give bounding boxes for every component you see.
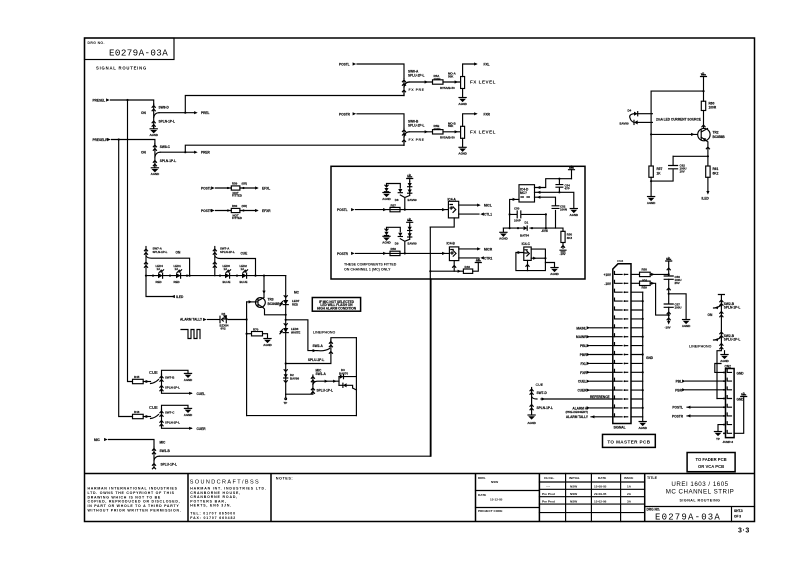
resistor R58 (box ch2) <box>390 247 400 255</box>
svg-text:R61: R61 <box>713 167 719 171</box>
svg-text:FAX: 01707 660482: FAX: 01707 660482 <box>190 516 236 520</box>
wire IC4-D pin3 to C52 <box>535 196 556 229</box>
svg-text:CTL1: CTL1 <box>484 213 492 217</box>
wire ILED return <box>146 276 175 299</box>
svg-text:R59: R59 <box>642 286 648 290</box>
wire IC4-D left pin down <box>510 198 519 228</box>
svg-text:RED: RED <box>292 303 298 307</box>
wire to R70 <box>247 333 252 335</box>
node POSTL (CN2) <box>672 406 723 410</box>
diode D2 BAV99 <box>284 370 300 383</box>
svg-text:PBR: PBR <box>580 353 587 357</box>
potentiometer RV5B FX LEVEL <box>440 121 496 139</box>
capacitor C62 100U <box>651 156 686 181</box>
resistor R57 1K (LED source) <box>649 134 663 196</box>
svg-text:100R: 100R <box>709 106 717 110</box>
svg-text:FXL: FXL <box>484 63 490 67</box>
capacitor C50 100P <box>514 207 521 223</box>
svg-text:Pre Prod: Pre Prod <box>542 500 555 504</box>
svg-text:MC CHANNEL STRIP: MC CHANNEL STRIP <box>666 489 735 496</box>
svg-text:EFXL: EFXL <box>262 186 270 190</box>
svg-text:CUE: CUE <box>149 405 158 410</box>
node POSTL input (FX A) <box>339 62 356 66</box>
svg-text:6K2: 6K2 <box>713 172 719 176</box>
svg-text:IC4-A: IC4-A <box>448 197 457 201</box>
svg-text:SPLN-1P-L: SPLN-1P-L <box>159 120 176 124</box>
wire CN3 GND bus <box>631 292 644 421</box>
node EFXR <box>262 209 271 213</box>
ground SW7-B <box>184 373 193 381</box>
svg-text:CUE: CUE <box>536 383 544 387</box>
svg-text:MICR: MICR <box>484 247 493 251</box>
wire CN2 pin7 to ground <box>718 425 723 431</box>
svg-text:ISSUE: ISSUE <box>624 476 633 480</box>
ground (IC4-C out) <box>550 268 559 276</box>
wire R70 to ground <box>263 334 268 338</box>
svg-text:CUE: CUE <box>149 370 158 375</box>
ground below SW8-D <box>149 129 158 137</box>
wire SW6-B to R5B <box>409 130 432 133</box>
power +10V (cap rail) <box>666 256 672 276</box>
wire IC4-D mid pin to ground <box>535 191 574 208</box>
transistor TR2 BC858B <box>698 128 726 141</box>
svg-text:FX PRE: FX PRE <box>409 138 425 142</box>
svg-text:NSW: NSW <box>491 480 498 484</box>
connector CN3 pins <box>615 271 628 417</box>
svg-text:WHITE: WHITE <box>291 331 300 335</box>
ground (CN2 pin7) <box>714 432 721 442</box>
ground (SW7-D) <box>527 415 536 425</box>
svg-text:FITTED: FITTED <box>232 216 242 220</box>
svg-text:DRAWING WHICH IS NOT TO BE: DRAWING WHICH IS NOT TO BE <box>88 495 162 499</box>
svg-text:UREI 1603 / 1605: UREI 1603 / 1605 <box>671 481 728 488</box>
svg-text:ALARM TALLY: ALARM TALLY <box>566 415 589 419</box>
node ALARM TALLY input <box>180 318 207 322</box>
wire RV5A bottom to ground <box>462 89 464 98</box>
wire LED row ON <box>146 275 215 277</box>
svg-text:1K: 1K <box>657 172 662 176</box>
node MAINL <box>576 326 614 330</box>
svg-text:DRG NO.: DRG NO. <box>647 508 661 512</box>
wire IC4-A out MICL <box>459 204 492 208</box>
svg-text:D8: D8 <box>395 198 399 202</box>
ground (SW2-B) <box>720 351 729 363</box>
svg-text:PRESELR: PRESELR <box>93 138 109 142</box>
svg-text:50K: 50K <box>448 74 454 78</box>
svg-text:JUMP-6: JUMP-6 <box>723 440 734 444</box>
svg-text:----: ---- <box>546 485 550 489</box>
node POSTL (box) <box>337 208 355 212</box>
svg-text:SW1-A: SW1-A <box>316 372 327 376</box>
svg-text:THESE COMPONENTS FITTED: THESE COMPONENTS FITTED <box>344 263 397 267</box>
title block grid <box>85 474 755 522</box>
svg-text:BLUE: BLUE <box>223 280 231 284</box>
svg-text:SW7-B: SW7-B <box>165 376 174 380</box>
svg-text:DRG NO.: DRG NO. <box>88 41 105 45</box>
svg-text:HIGH ALARM CONDITION: HIGH ALARM CONDITION <box>317 306 357 310</box>
ground (cap mid) <box>682 320 691 328</box>
svg-text:100R: 100R <box>434 127 442 131</box>
drawn/date cells <box>478 476 503 513</box>
wire PRER junction up to FX PRE B <box>185 145 404 152</box>
svg-text:100U: 100U <box>675 306 682 310</box>
wire TR3 emitter to MC LED chain <box>263 308 286 315</box>
ground (IC4-D right) <box>570 209 579 217</box>
svg-text:EFXR: EFXR <box>262 209 271 213</box>
resistor R70 <box>252 328 263 336</box>
svg-text:FXR: FXR <box>484 112 491 116</box>
svg-text:FX LEVEL: FX LEVEL <box>470 129 496 134</box>
wire POSTL to SW6-A <box>357 64 404 79</box>
svg-text:29-09-05: 29-09-05 <box>594 492 607 496</box>
wire D5 to TR3 base vertical <box>228 318 248 320</box>
switch SW7-A CUE (LED bypass) <box>213 247 255 276</box>
wire IC4-C bottom <box>526 260 529 270</box>
node PBL (CN2) <box>676 380 723 384</box>
wire POSTR to SW6-B <box>357 114 404 129</box>
node PBL (CN3) <box>580 344 614 348</box>
svg-text:BAT54: BAT54 <box>520 234 529 238</box>
node FXL <box>484 63 490 67</box>
title cell UREI 1603 / 1605 MC CHANNEL STRIP <box>647 476 734 503</box>
svg-text:FX PRE: FX PRE <box>409 88 425 92</box>
svg-text:0R1: 0R1 <box>642 278 648 282</box>
svg-text:2mA LED CURRENT SOURCE: 2mA LED CURRENT SOURCE <box>656 117 701 121</box>
switch SW7-B CUE <box>149 370 193 395</box>
capacitor C57 100U 25V <box>664 294 681 321</box>
svg-text:R58: R58 <box>642 267 648 271</box>
wire POSTR to IC4-B <box>356 252 450 255</box>
power +B ch1 cluster <box>407 173 413 181</box>
svg-text:SW7-C: SW7-C <box>165 411 175 415</box>
junction CUE LED row <box>219 275 265 277</box>
node FXR <box>484 112 491 116</box>
node PRESELR input <box>93 138 111 142</box>
svg-text:SPLN-1P-L: SPLN-1P-L <box>220 250 235 254</box>
svg-text:AGND: AGND <box>527 421 536 425</box>
svg-text:RED: RED <box>174 280 180 284</box>
svg-text:100N: 100N <box>560 208 567 212</box>
label LINE/PHONO <box>313 331 336 335</box>
wire bus left to ground <box>502 228 504 232</box>
node PBR (CN2) <box>675 388 723 392</box>
node PRESEL input <box>93 98 110 102</box>
svg-text:15-12-05: 15-12-05 <box>490 498 503 502</box>
switch SW2-A LINE/PHONO <box>286 338 357 364</box>
svg-text:SPLU-2P-L: SPLU-2P-L <box>408 74 425 78</box>
switch SW7-D CUE (reference) <box>530 383 553 415</box>
wire MC LED chain vertical <box>285 276 287 395</box>
switch SW7-C CUE <box>149 405 193 430</box>
svg-text:SW2-A: SW2-A <box>313 344 324 348</box>
power -10V (R50) <box>560 243 567 256</box>
svg-text:SPLN-1P-L: SPLN-1P-L <box>160 159 177 163</box>
resistor R5B 100R <box>433 124 444 134</box>
svg-text:CH No.: CH No. <box>544 476 554 480</box>
svg-text:PROJECT CODE: PROJECT CODE <box>478 509 502 513</box>
svg-text:HERTS, EN6 3JN.: HERTS, EN6 3JN. <box>190 504 232 508</box>
svg-text:TP: TP <box>716 437 720 441</box>
switch SW1-B MIC <box>152 441 177 469</box>
svg-text:PBL: PBL <box>580 344 586 348</box>
resistor R61 6K2 <box>706 156 719 177</box>
node ALARM HI <box>566 406 615 414</box>
svg-text:COPIED, REPRODUCED OR DISCLOSE: COPIED, REPRODUCED OR DISCLOSED, <box>88 500 181 504</box>
svg-text:PBL: PBL <box>676 380 682 384</box>
svg-text:TITLE: TITLE <box>647 476 658 480</box>
svg-text:CUEL: CUEL <box>197 392 206 396</box>
svg-text:-10V: -10V <box>604 282 612 286</box>
svg-text:RV5A/B-50: RV5A/B-50 <box>440 86 455 90</box>
switch SW7-A ON (LED bypass) <box>144 247 189 276</box>
company address block SOUNDCRAFT/BSS <box>190 479 267 520</box>
wire CUE reference to CN3 <box>541 397 615 400</box>
power +B ch2 cluster <box>407 217 413 225</box>
svg-text:BAV99: BAV99 <box>290 377 299 381</box>
node MAINR <box>576 335 614 339</box>
node ALARM TALLY (CN3) <box>566 415 615 419</box>
wire CN2 pin1 gnd <box>715 364 744 376</box>
wire C50 right vertical <box>545 214 547 229</box>
svg-text:D4: D4 <box>628 109 632 113</box>
resistor R57 (box ch1) <box>390 203 400 211</box>
switch SW8-D ON <box>141 104 175 128</box>
svg-text:R60: R60 <box>232 204 238 208</box>
svg-text:RV5A/B-50: RV5A/B-50 <box>440 136 455 140</box>
svg-text:SPLN-1P-L: SPLN-1P-L <box>153 250 168 254</box>
svg-text:CUEL: CUEL <box>578 380 587 384</box>
note box: IF MIC NOT SELECTED <box>312 298 360 312</box>
node CUEL (CN3) <box>578 380 615 384</box>
svg-text:GND: GND <box>737 371 745 375</box>
ground ch1 cluster <box>382 193 391 201</box>
node POSTR input (FX B) <box>339 112 356 116</box>
svg-text:R59: R59 <box>232 182 238 186</box>
svg-text:15-08-05: 15-08-05 <box>594 485 607 489</box>
svg-text:ILED: ILED <box>702 197 710 201</box>
svg-text:CUER: CUER <box>197 427 207 431</box>
led LED6 1A BLUE <box>223 264 231 284</box>
potentiometer RV5A/B-50 FX LEVEL <box>440 72 496 90</box>
svg-text:25V: 25V <box>675 281 680 285</box>
svg-text:POSTR: POSTR <box>339 112 351 116</box>
wire POSTL to IC4-A <box>356 208 449 211</box>
svg-text:TO MASTER PCB: TO MASTER PCB <box>607 440 650 445</box>
svg-text:SPLN-1P-L: SPLN-1P-L <box>165 421 180 425</box>
power -10V (cap rail) <box>665 321 671 330</box>
svg-text:E0279A-03A: E0279A-03A <box>655 513 721 523</box>
ground below SW8-C <box>151 168 160 176</box>
ground below RV5B <box>458 147 467 155</box>
svg-text:R57: R57 <box>657 167 663 171</box>
ground below R70 <box>263 339 272 347</box>
node MIC input <box>94 438 108 442</box>
node PBR (CN3) <box>580 353 615 357</box>
note text THESE COMPONENTS FITTED <box>344 263 397 272</box>
ground below RV5A <box>458 98 467 106</box>
svg-text:SPLN-1P-L: SPLN-1P-L <box>724 306 741 310</box>
svg-text:POSTL: POSTL <box>672 406 683 410</box>
svg-text:CN3: CN3 <box>617 259 623 263</box>
svg-text:LTD. OWNS THE COPYRIGHT OF THI: LTD. OWNS THE COPYRIGHT OF THIS <box>88 491 175 495</box>
switch SW6-A FX PRE <box>402 70 424 96</box>
label SIGNAL under CN3 <box>614 426 626 430</box>
svg-text:MIC: MIC <box>160 441 167 445</box>
svg-text:GND: GND <box>737 397 745 401</box>
resistor R59 0R NOT FITTED <box>216 182 259 198</box>
svg-text:-10V: -10V <box>560 252 566 256</box>
wire CN2 pin8 to +10V <box>734 397 744 434</box>
switch SW6-B FX PRE <box>402 119 424 145</box>
node POSTR (box) <box>337 252 355 256</box>
svg-text:HARMAN INT. INDUSTRIES LTD.: HARMAN INT. INDUSTRIES LTD. <box>190 486 266 490</box>
node +10V pin1 <box>603 273 611 277</box>
notes cell <box>276 476 293 480</box>
page number 3-3 <box>738 528 750 535</box>
transistor TR3 BC848B <box>256 298 281 308</box>
node ILED (source out) <box>702 197 710 201</box>
wire SW8-D output to PREL <box>159 111 198 114</box>
svg-text:POSTR: POSTR <box>201 209 213 213</box>
svg-text:3K3: 3K3 <box>567 236 573 240</box>
svg-text:15-02-06: 15-02-06 <box>594 500 607 504</box>
svg-text:SOUNDCRAFT/BSS: SOUNDCRAFT/BSS <box>190 479 260 485</box>
svg-text:OR VCA PCB: OR VCA PCB <box>698 464 724 469</box>
node FXL (CN3) <box>580 362 614 366</box>
resistor R45 (CUE L feed) <box>133 375 151 384</box>
ground ch2 cluster <box>382 236 391 244</box>
wire MIC input to SW1-B <box>109 440 155 448</box>
switch SW8-C ON <box>141 144 176 168</box>
wire R5A to RV5A <box>443 80 460 83</box>
svg-text:BLUE: BLUE <box>240 280 248 284</box>
node POSTR (CN2) <box>672 414 723 418</box>
wire IC4-C feedback loop <box>516 249 547 271</box>
svg-text:HARMAN INTERNATIONAL INDUSTRIE: HARMAN INTERNATIONAL INDUSTRIES <box>88 487 178 491</box>
wire RV5A wiper to FXL <box>463 62 478 76</box>
svg-text:3·3: 3·3 <box>738 528 750 535</box>
diode D10 BAT54 <box>520 220 529 237</box>
svg-text:SW8-D: SW8-D <box>159 106 170 110</box>
box TO MASTER PCB <box>603 434 656 447</box>
wire CN2 pin4 (line/phono) <box>717 397 744 401</box>
svg-text:NSW: NSW <box>570 485 577 489</box>
node FXR (CN3) <box>580 371 614 375</box>
junction on PRESELR wire <box>118 138 120 140</box>
svg-text:REFERENCE: REFERENCE <box>590 395 610 399</box>
power +B (R48) <box>475 257 481 263</box>
wire SW8-C output to PRER <box>160 151 198 154</box>
svg-text:CTR1: CTR1 <box>484 256 493 260</box>
svg-text:INITIAL: INITIAL <box>569 476 580 480</box>
svg-text:SIGNAL: SIGNAL <box>614 426 626 430</box>
svg-text:100P: 100P <box>514 219 521 223</box>
power +10V (CN2) <box>741 392 747 397</box>
svg-text:PRER: PRER <box>201 151 211 155</box>
svg-text:CN2: CN2 <box>725 364 732 368</box>
svg-text:SPLN-1P-L: SPLN-1P-L <box>537 406 554 410</box>
svg-text:MICL: MICL <box>484 204 492 208</box>
wire IC4-B out MICR <box>459 247 493 251</box>
svg-text:NOTES:: NOTES: <box>276 476 293 480</box>
svg-text:R70: R70 <box>253 328 259 332</box>
led LED4 1A RED <box>156 264 164 284</box>
connector CN2 pins <box>723 370 731 435</box>
wire R61 to ILED <box>706 177 709 194</box>
wire R59 to -10V node <box>650 282 670 317</box>
wire PRESELR to SW8-C <box>112 140 155 145</box>
svg-text:SW8-C: SW8-C <box>160 145 171 149</box>
svg-text:(0R): (0R) <box>242 182 248 186</box>
svg-text:TO FADER PCB: TO FADER PCB <box>696 457 727 462</box>
drg no cell E0279A-03A <box>647 508 743 523</box>
label 2mA LED CURRENT SOURCE <box>656 117 701 121</box>
wire SW1-B output to MC box <box>159 279 431 456</box>
wire IC4-A feedback to bus <box>430 218 454 227</box>
svg-text:POSTR: POSTR <box>672 414 684 418</box>
wire R60 to TR2 collector <box>702 111 705 129</box>
wire RV5B wiper to FXR <box>463 112 478 126</box>
label JUMP-6 <box>723 440 734 444</box>
switch SW2-B LINE/PHONO (fader) <box>689 331 740 399</box>
junction on PRESEL wire <box>126 99 128 101</box>
svg-text:PBR: PBR <box>675 388 682 392</box>
svg-text:SIGNAL ROUTEING: SIGNAL ROUTEING <box>680 499 721 503</box>
svg-text:RED: RED <box>156 280 162 284</box>
wire IC4-B out CTR <box>459 256 493 260</box>
svg-text:MIC: MIC <box>94 438 101 442</box>
svg-text:SPLU-2P-L: SPLU-2P-L <box>308 358 325 362</box>
wire SW6-A to R5A <box>409 80 432 83</box>
svg-text:NSW: NSW <box>570 500 577 504</box>
svg-text:BAV99: BAV99 <box>408 198 417 202</box>
wire LED source top rail <box>651 90 705 92</box>
svg-text:CUE: CUE <box>241 252 248 256</box>
wire ALARM TALLY to D5 <box>208 319 220 321</box>
svg-text:SPLU-2P-L: SPLU-2P-L <box>408 123 425 127</box>
svg-text:(0R): (0R) <box>242 204 248 208</box>
resistor R58 0R1 <box>640 267 651 282</box>
resistor R46 (CUE R feed) <box>133 410 151 419</box>
wire IC4-C out to ground <box>545 263 554 268</box>
node EFXL <box>262 186 270 190</box>
svg-text:10V: 10V <box>680 170 685 174</box>
diode D5 BZX84 <box>220 312 229 331</box>
resistor R59 0R1 <box>640 281 651 290</box>
wire R48 to +B <box>473 263 479 272</box>
svg-text:Pre Prod: Pre Prod <box>542 492 555 496</box>
svg-text:MC: MC <box>294 290 300 294</box>
svg-text:SW7-D: SW7-D <box>537 391 548 395</box>
ground SW7-C <box>184 408 193 416</box>
svg-text:-6V6: -6V6 <box>541 229 548 233</box>
wire bus R (vertical to CUE2) <box>119 140 133 417</box>
svg-text:100R: 100R <box>434 77 442 81</box>
svg-text:TR2: TR2 <box>713 131 719 135</box>
svg-text:R58: R58 <box>391 247 397 251</box>
svg-text:ON CHANNEL 1 (MC) ONLY: ON CHANNEL 1 (MC) ONLY <box>344 268 391 272</box>
resistor R5A 100R <box>433 74 444 84</box>
capacitor C56 100U 25V <box>664 275 681 294</box>
node CUER <box>197 427 207 431</box>
svg-text:ON: ON <box>176 251 181 255</box>
led LED7 RED (MC) <box>280 296 300 307</box>
op-amp IC4-D <box>519 185 535 202</box>
wire CUE LED junction to TR3 collector <box>262 276 265 297</box>
svg-text:BAV99: BAV99 <box>408 242 417 246</box>
svg-text:ON: ON <box>708 313 713 317</box>
wire to SW2-A <box>286 320 317 352</box>
